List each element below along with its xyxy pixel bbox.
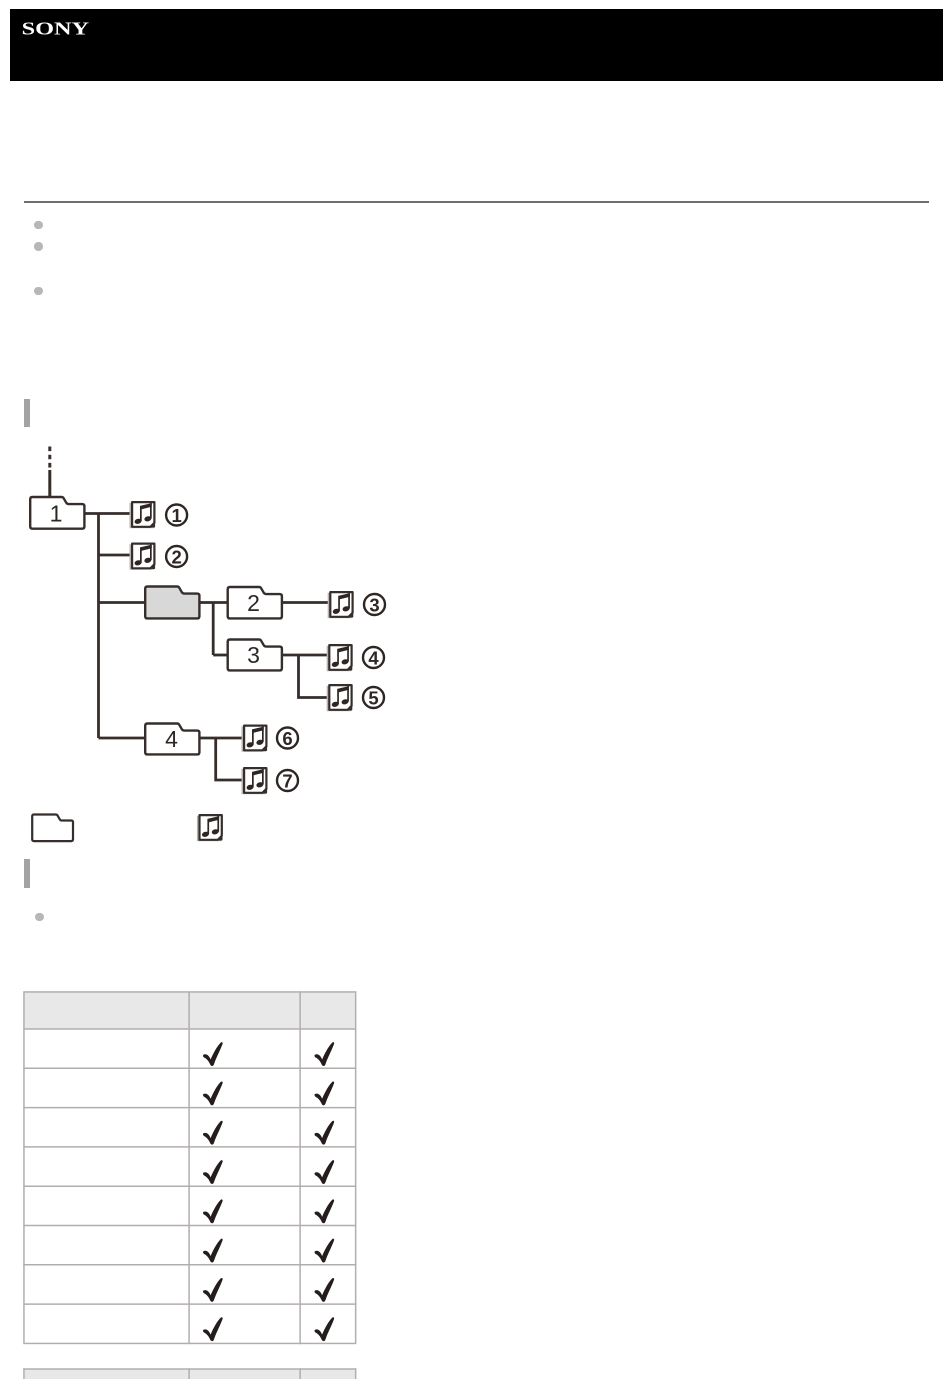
- checkmark row 7 col 2: [203, 1278, 223, 1302]
- svg-text:3: 3: [247, 642, 260, 668]
- table grid: [23, 991, 356, 1344]
- checkmark row 8 col 2: [203, 1317, 223, 1341]
- folder 2: [228, 587, 282, 618]
- checkmark row 3 col 2: [203, 1121, 223, 1145]
- bullet 1: [34, 221, 42, 229]
- bullet 4: [35, 913, 43, 921]
- checkmark row 1 col 2: [203, 1042, 223, 1066]
- wire: trunk to file 2: [99, 554, 132, 557]
- header bar: [10, 9, 943, 81]
- wire: parent to folder 1: [48, 470, 51, 498]
- wire: trunk to folder 4: [99, 737, 146, 740]
- circled number 4: [363, 647, 384, 668]
- wire: sub trunk: [212, 603, 215, 656]
- wire: gray folder to folder 2: [199, 601, 227, 604]
- checkmark row 2 col 3: [315, 1081, 335, 1105]
- wire: folder 1 to file 1: [85, 512, 132, 515]
- svg-text:2: 2: [247, 590, 260, 616]
- gray unnamed folder: [145, 587, 199, 619]
- checkmark row 6 col 3: [315, 1239, 335, 1263]
- bullet 2: [34, 242, 42, 250]
- checkmark row 6 col 2: [203, 1239, 223, 1263]
- circled number 7: [277, 770, 298, 791]
- music file 5: [327, 685, 352, 711]
- dashed parent line: [48, 447, 51, 472]
- folder 1: [30, 497, 84, 529]
- checkmark row 4 col 2: [203, 1160, 223, 1184]
- checkmark row 7 col 3: [315, 1278, 335, 1302]
- music file 3: [328, 592, 353, 618]
- svg-text:2: 2: [171, 546, 181, 567]
- circled number 2: [166, 546, 187, 567]
- checkmark row 5 col 2: [203, 1199, 223, 1223]
- wire: folder 2 to file 3: [281, 601, 329, 604]
- bullet 3: [34, 287, 42, 295]
- svg-text:1: 1: [50, 501, 63, 527]
- music file 4: [327, 645, 352, 671]
- horizontal rule: [24, 201, 929, 203]
- svg-text:4: 4: [368, 647, 379, 668]
- svg-text:5: 5: [368, 687, 378, 708]
- checkmark row 8 col 3: [315, 1317, 335, 1341]
- svg-text:4: 4: [165, 726, 178, 752]
- svg-text:7: 7: [282, 770, 292, 791]
- circled number 3: [364, 594, 385, 615]
- music file 1: [130, 502, 155, 528]
- compatibility table: [23, 991, 358, 1345]
- table header row: [24, 992, 356, 1029]
- checkmark row 5 col 3: [315, 1199, 335, 1223]
- legend music file icon: [197, 815, 222, 841]
- wire: trunk to gray folder: [99, 601, 146, 604]
- music file 6: [242, 726, 267, 752]
- wire: sub trunk to folder 3: [213, 654, 227, 657]
- section marker bar 1: [24, 399, 30, 427]
- legend folder icon: [32, 815, 73, 842]
- checkmark row 1 col 3: [315, 1042, 335, 1066]
- wire: main trunk: [97, 514, 100, 739]
- circled number 1: [166, 505, 187, 526]
- wire: drop to file 5: [299, 655, 329, 698]
- svg-text:SONY: SONY: [22, 19, 90, 39]
- circled number 6: [277, 728, 298, 749]
- second table (partially visible): [23, 1368, 358, 1379]
- SONY logo: [10, 9, 210, 59]
- svg-text:6: 6: [282, 728, 292, 749]
- checkmark row 4 col 3: [315, 1160, 335, 1184]
- checkmark row 3 col 3: [315, 1121, 335, 1145]
- folder 4: [145, 724, 199, 755]
- wire: drop to file 7: [216, 738, 243, 780]
- svg-text:1: 1: [171, 505, 181, 526]
- wire: folder 3 to file 4: [281, 654, 328, 657]
- folder tree diagram: [0, 440, 420, 850]
- folder 3: [228, 640, 282, 671]
- music file 2: [130, 544, 155, 570]
- wire: folder 4 to file 6: [199, 737, 243, 740]
- svg-text:3: 3: [369, 594, 379, 615]
- section marker bar 2: [24, 859, 30, 889]
- music file 7: [242, 768, 267, 794]
- circled number 5: [363, 687, 384, 708]
- checkmark row 2 col 2: [203, 1081, 223, 1105]
